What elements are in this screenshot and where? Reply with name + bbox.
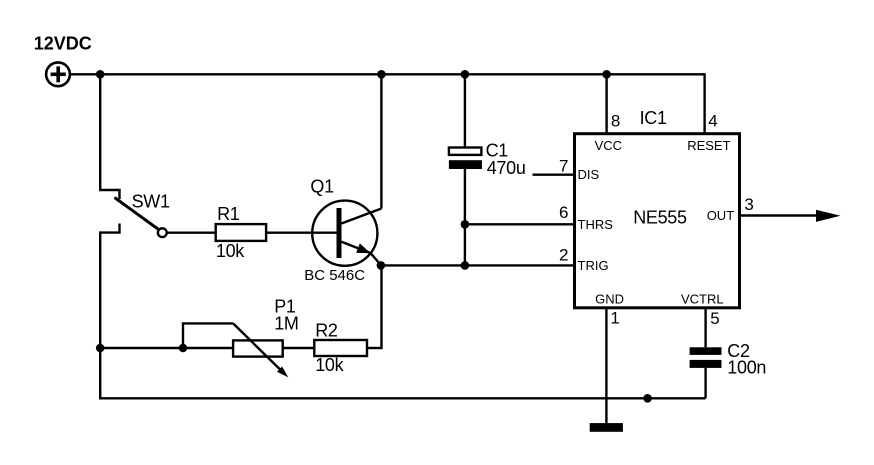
wire SW1 to R1: [167, 231, 216, 233]
svg-text:1: 1: [610, 308, 619, 327]
wire rail to RESET pin 4: [703, 73, 705, 133]
svg-text:4: 4: [708, 112, 717, 131]
wire emitter node to TRIG pin 2: [381, 264, 573, 266]
svg-text:Q1: Q1: [310, 177, 334, 197]
resistor R1: [216, 224, 266, 241]
ground: [590, 423, 623, 432]
svg-text:8: 8: [611, 112, 620, 131]
wire left vertical SW1 to bottom node: [99, 233, 101, 399]
wire left node to P1: [100, 347, 233, 349]
svg-text:R1: R1: [217, 204, 240, 224]
svg-text:NE555: NE555: [633, 207, 687, 227]
resistor R2: [314, 340, 367, 356]
svg-text:470u: 470u: [487, 158, 526, 178]
svg-text:100n: 100n: [727, 357, 766, 377]
svg-text:VCC: VCC: [595, 138, 622, 153]
wire top +12V rail: [70, 73, 705, 75]
wire P1 to R2: [283, 347, 314, 349]
junction dot rail at C1 riser: [461, 70, 470, 79]
wire left drop from rail to SW1: [99, 74, 101, 190]
capacitor C2: [690, 347, 722, 368]
junction dot wiper branch: [179, 344, 188, 353]
svg-text:RESET: RESET: [687, 138, 730, 153]
wire C2 to bottom rail: [704, 368, 706, 398]
svg-text:7: 7: [559, 157, 568, 176]
svg-text:10k: 10k: [216, 241, 245, 261]
wire C1 to THRS/TRIG: [464, 169, 466, 266]
wire OUT pin 3: [741, 214, 820, 216]
wire R1 to Q1 base: [266, 231, 336, 233]
wire THRS to pin 6: [465, 223, 573, 225]
svg-text:6: 6: [559, 203, 568, 222]
svg-text:3: 3: [744, 195, 753, 214]
svg-text:1M: 1M: [274, 314, 298, 334]
wire GND pin 1: [605, 309, 607, 424]
wire emitter node riser: [380, 265, 382, 349]
junction dot rail at VCC pin: [602, 70, 611, 79]
svg-text:DIS: DIS: [578, 167, 600, 182]
svg-text:R2: R2: [315, 321, 338, 341]
wire bottom rail: [100, 397, 705, 398]
junction dot Q1 emitter node: [377, 261, 386, 270]
junction dot THRS node: [461, 220, 470, 229]
wire rail to Q1 collector riser: [380, 74, 382, 208]
wire VCTRL pin 5 to C2: [704, 309, 706, 347]
svg-text:BC 546C: BC 546C: [304, 267, 365, 284]
junction dot left wire: [96, 344, 105, 353]
wire rail to C1: [464, 74, 466, 149]
svg-text:2: 2: [559, 245, 568, 264]
arrow output: [816, 210, 841, 222]
wire rail to VCC pin 8: [605, 74, 607, 133]
op-amp/timer IC1 NE555 body: [575, 134, 740, 308]
svg-text:SW1: SW1: [132, 191, 170, 211]
power supply terminal +: [46, 62, 70, 86]
wire P1 wiper branch: [183, 323, 233, 348]
svg-text:5: 5: [710, 309, 719, 328]
junction dot rail at Q1 riser: [377, 70, 386, 79]
capacitor C1: [449, 148, 482, 170]
wire DIS stub pin 7: [533, 173, 574, 175]
svg-text:TRIG: TRIG: [578, 258, 609, 273]
svg-text:10k: 10k: [315, 355, 344, 375]
junction dot TRIG node: [461, 261, 470, 270]
junction dot bottom rail: [643, 394, 652, 403]
svg-text:GND: GND: [595, 291, 624, 306]
potentiometer P1: [233, 323, 288, 377]
switch SW1: [99, 190, 167, 237]
svg-text:IC1: IC1: [640, 108, 667, 128]
svg-text:12VDC: 12VDC: [34, 34, 92, 54]
transistor Q1: [312, 201, 381, 266]
wire R2 to emitter riser: [367, 347, 382, 349]
junction dot rail left: [96, 70, 105, 79]
svg-text:VCTRL: VCTRL: [681, 291, 724, 306]
svg-text:OUT: OUT: [707, 208, 735, 223]
svg-text:THRS: THRS: [578, 217, 614, 232]
